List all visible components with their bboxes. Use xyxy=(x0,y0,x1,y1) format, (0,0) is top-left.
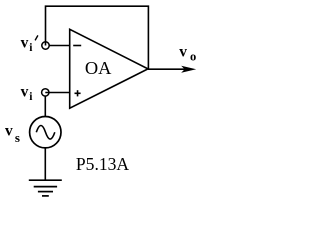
svg-text:OA: OA xyxy=(85,58,112,78)
terminal node vi (open circle) xyxy=(42,89,49,96)
op-amp U1 "OA" triangle xyxy=(70,29,148,108)
wire feedback loop from output node up and over to inverting input terminal xyxy=(46,6,149,69)
svg-text:v: v xyxy=(21,84,29,101)
label vo xyxy=(179,43,196,63)
wire non-inverting input xyxy=(45,92,69,94)
svg-text:P5.13A: P5.13A xyxy=(76,154,129,174)
svg-text:v: v xyxy=(21,34,29,51)
wire from source down to ground xyxy=(44,148,46,180)
svg-text:v: v xyxy=(5,122,13,139)
wire from vi terminal down to source xyxy=(44,96,46,117)
svg-text:s: s xyxy=(15,130,20,145)
wire output with arrow xyxy=(148,66,196,73)
ground symbol xyxy=(29,180,62,196)
label vs xyxy=(5,122,20,145)
svg-text:o: o xyxy=(190,50,196,64)
svg-text:i: i xyxy=(29,42,33,54)
op-amp inverting pin minus sign xyxy=(73,45,81,47)
svg-text:i: i xyxy=(29,91,33,103)
op-amp non-inverting pin plus sign xyxy=(75,90,81,96)
svg-text:v: v xyxy=(179,43,187,60)
wire inverting input xyxy=(49,45,69,47)
label vi xyxy=(21,84,34,104)
terminal node vi' (open circle) xyxy=(42,42,49,49)
label vi' xyxy=(21,34,38,54)
voltage source Vs (sine source) xyxy=(30,117,61,148)
